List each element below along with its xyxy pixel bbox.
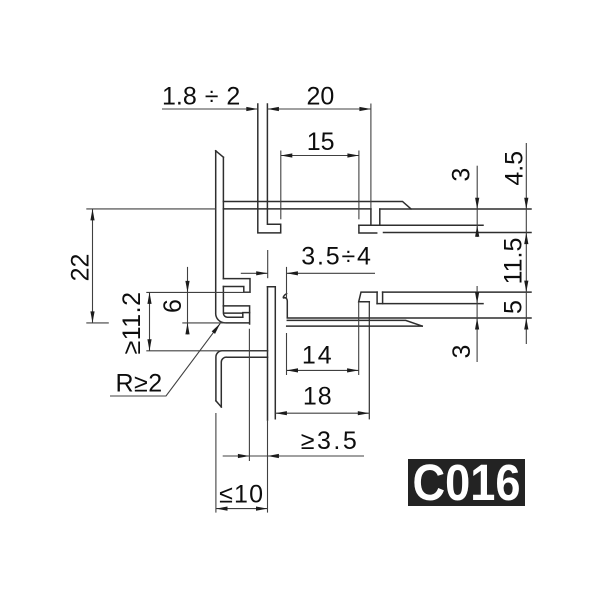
svg-text:3.5÷4: 3.5÷4 bbox=[301, 243, 372, 271]
svg-text:14: 14 bbox=[302, 342, 334, 370]
svg-text:C016: C016 bbox=[413, 454, 521, 511]
svg-text:15: 15 bbox=[307, 128, 335, 156]
svg-text:≥11.2: ≥11.2 bbox=[118, 291, 146, 354]
svg-text:11.5: 11.5 bbox=[500, 238, 528, 285]
svg-text:3: 3 bbox=[448, 168, 476, 182]
svg-text:6: 6 bbox=[159, 299, 187, 313]
svg-text:3: 3 bbox=[448, 345, 476, 359]
svg-text:22: 22 bbox=[67, 254, 95, 282]
svg-text:18: 18 bbox=[303, 383, 333, 411]
svg-text:≥3.5: ≥3.5 bbox=[301, 427, 359, 455]
svg-text:1.8 ÷ 2: 1.8 ÷ 2 bbox=[162, 83, 240, 111]
svg-text:4.5: 4.5 bbox=[501, 151, 529, 186]
svg-text:≤10: ≤10 bbox=[219, 481, 264, 509]
svg-text:5: 5 bbox=[500, 300, 528, 314]
svg-text:20: 20 bbox=[306, 83, 334, 111]
svg-text:R≥2: R≥2 bbox=[116, 370, 163, 398]
